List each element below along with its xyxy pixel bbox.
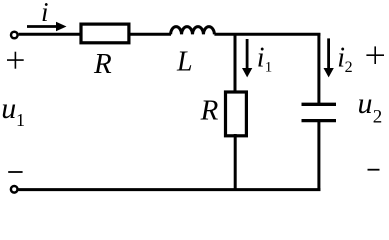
current arrow i bbox=[27, 22, 67, 32]
label - (right polarity) bbox=[368, 169, 380, 171]
label + (right polarity) bbox=[366, 46, 384, 64]
wire: bottom rail bbox=[19, 188, 321, 191]
label + (left polarity) bbox=[7, 52, 24, 69]
label u1 bbox=[1, 92, 25, 130]
svg-text:u: u bbox=[1, 92, 16, 125]
svg-text:1: 1 bbox=[16, 110, 25, 130]
wire: resistor R to inductor L bbox=[128, 33, 171, 36]
wire: input terminal to resistor R bbox=[19, 33, 81, 36]
svg-text:2: 2 bbox=[373, 107, 383, 128]
wire: top rail down to shunt resistor R bbox=[234, 33, 237, 93]
label u2 bbox=[358, 87, 383, 128]
wire: capacitor to bottom rail bbox=[317, 122, 320, 191]
label i1 bbox=[257, 43, 273, 76]
terminal circle (top-left input) bbox=[11, 32, 18, 39]
svg-text:u: u bbox=[358, 87, 373, 120]
svg-text:i: i bbox=[41, 0, 49, 27]
svg-text:1: 1 bbox=[265, 60, 273, 76]
current arrow i2 bbox=[324, 38, 334, 77]
label - (left polarity) bbox=[8, 171, 22, 173]
wire: inductor L to right corner (top rail) bbox=[214, 33, 320, 36]
resistor R (series, horizontal) bbox=[81, 24, 129, 43]
wire: shunt resistor R to bottom rail bbox=[234, 134, 237, 191]
capacitor C (top plate) bbox=[302, 103, 337, 106]
resistor R (shunt, vertical) bbox=[226, 92, 247, 136]
svg-text:R: R bbox=[200, 95, 219, 127]
svg-text:2: 2 bbox=[345, 59, 353, 76]
wire: top-right corner down to capacitor bbox=[317, 33, 320, 103]
current arrow i1 bbox=[242, 39, 252, 77]
svg-text:i: i bbox=[257, 43, 265, 74]
label i2 bbox=[337, 43, 352, 76]
svg-text:L: L bbox=[176, 47, 193, 78]
terminal circle (bottom-left) bbox=[11, 186, 18, 193]
inductor L bbox=[171, 27, 215, 35]
capacitor C (bottom plate) bbox=[302, 119, 337, 122]
svg-text:R: R bbox=[93, 48, 112, 80]
